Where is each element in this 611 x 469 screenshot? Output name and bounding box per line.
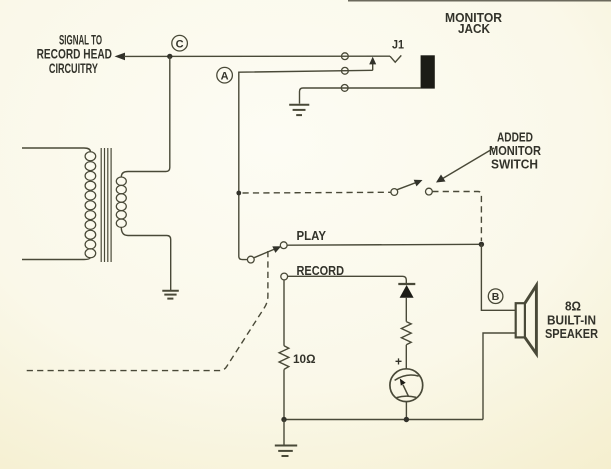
added monitor switch xyxy=(391,180,432,196)
jack contact circle middle xyxy=(342,67,349,74)
ground at transformer secondary xyxy=(162,291,179,299)
label 8 ohm BUILT-IN SPEAKER xyxy=(545,299,599,341)
wire down to speaker top terminal xyxy=(481,244,515,310)
wire bottom rail up to speaker bottom terminal xyxy=(483,333,516,420)
svg-text:JACK: JACK xyxy=(458,21,491,36)
resistor (meter series) xyxy=(401,322,411,345)
label MONITOR JACK xyxy=(445,10,503,36)
junction at C xyxy=(167,54,172,59)
svg-text:J1: J1 xyxy=(392,38,404,52)
node A xyxy=(217,67,233,83)
wire C junction down to transformer secondary top xyxy=(121,56,170,177)
wire top line from arrow to jack tip contact xyxy=(124,55,390,57)
RECORD contact circle xyxy=(281,273,288,280)
junction dot at meter bottom xyxy=(404,417,409,422)
ground bottom xyxy=(275,420,297,457)
switch arm to PLAY xyxy=(254,246,281,258)
speaker SP1 xyxy=(516,285,537,354)
transformer T1 xyxy=(22,148,171,290)
dashed wire junction to monitor switch xyxy=(243,191,391,194)
dashed wire from switch pole down and off to the left xyxy=(26,251,268,371)
svg-text:+: + xyxy=(395,355,402,369)
jack body J1 xyxy=(421,55,435,88)
svg-text:PLAY: PLAY xyxy=(297,229,327,243)
ground at jack xyxy=(289,105,309,115)
svg-text:A: A xyxy=(221,70,229,82)
wire resistor to bottom rail xyxy=(283,369,285,419)
wire diode to resistor xyxy=(405,298,407,322)
core laminations xyxy=(100,148,102,262)
wire A line (horizontal then down to switch pole) xyxy=(239,70,373,259)
node C xyxy=(172,35,188,51)
primary winding xyxy=(85,152,96,258)
label SIGNAL TO RECORD HEAD CIRCUITRY xyxy=(37,31,112,76)
pointer line for added monitor switch xyxy=(436,148,494,183)
wire meter to bottom rail xyxy=(405,402,407,420)
wire RECORD line to diode xyxy=(288,276,407,284)
jack contact circle sleeve xyxy=(341,85,348,92)
bottom rail wire xyxy=(284,419,483,421)
jack switch arrow contact xyxy=(369,57,376,71)
wire resistor to meter xyxy=(405,345,407,369)
junction dot bottom left xyxy=(281,417,286,422)
svg-text:C: C xyxy=(176,38,184,50)
PLAY contact circle xyxy=(280,242,287,249)
primary bottom lead xyxy=(22,258,91,260)
wire RECORD branch down to 10 ohm resistor xyxy=(283,280,285,346)
wire PLAY line to junction B branch xyxy=(287,243,481,246)
resistor 10 ohm xyxy=(279,346,289,370)
dashed wire monitor switch to B branch xyxy=(432,192,481,242)
jack tip spring contact J1 xyxy=(390,55,401,62)
diode xyxy=(398,284,415,298)
primary top lead xyxy=(22,148,91,152)
node B xyxy=(488,289,503,304)
label ADDED MONITOR SWITCH xyxy=(489,129,542,171)
svg-text:SPEAKER: SPEAKER xyxy=(545,326,599,341)
svg-text:SWITCH: SWITCH xyxy=(491,157,538,172)
svg-text:CIRCUITRY: CIRCUITRY xyxy=(49,60,98,76)
junction dot on A wire for monitor switch xyxy=(236,191,241,196)
meter M1 xyxy=(390,369,423,402)
arrow to record head circuitry xyxy=(115,53,126,61)
secondary winding xyxy=(116,177,126,227)
svg-text:B: B xyxy=(492,291,500,303)
jack contact circle top xyxy=(342,53,349,60)
wire sleeve line to ground xyxy=(300,88,421,104)
svg-text:10Ω: 10Ω xyxy=(293,352,316,366)
switch pole circle (play/record) xyxy=(247,256,254,263)
secondary bottom lead xyxy=(121,227,170,290)
junction dot at B branch xyxy=(479,242,484,247)
